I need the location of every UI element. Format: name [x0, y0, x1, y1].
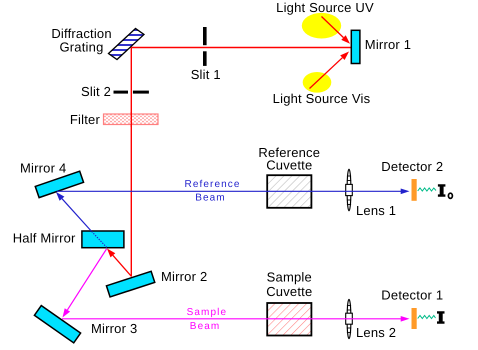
svg-text:Mirror 3: Mirror 3	[91, 321, 137, 336]
svg-text:Half Mirror: Half Mirror	[13, 230, 76, 245]
filter	[104, 114, 159, 125]
lens 1	[346, 169, 353, 211]
mirror 1	[351, 30, 360, 63]
wire: sample beam half mirror to mirror 3	[67, 249, 106, 310]
svg-text:Beam: Beam	[190, 321, 221, 332]
svg-text:Detector 2: Detector 2	[381, 159, 443, 174]
detector 1 body	[412, 308, 417, 329]
svg-text:Cuvette: Cuvette	[266, 284, 312, 299]
detector 2 body	[412, 179, 417, 201]
wire: reference beam diagonal half mirror to mirror 4	[91, 231, 107, 248]
svg-text:Lens 2: Lens 2	[356, 325, 396, 340]
sample cuvette	[267, 303, 311, 336]
mirror 2	[106, 271, 154, 297]
svg-text:Sample: Sample	[187, 307, 228, 318]
svg-text:Mirror 2: Mirror 2	[161, 269, 207, 284]
lens 2	[346, 299, 353, 338]
wire: sample beam horizontal to detector 1	[62, 318, 402, 320]
wire: red beam over filter	[130, 112, 132, 127]
label: I intensity	[437, 311, 445, 324]
svg-text:Light Source Vis: Light Source Vis	[273, 91, 371, 106]
light source UV lamp	[302, 13, 341, 39]
detector 2 signal squiggle	[418, 188, 436, 191]
slit 2	[114, 91, 129, 94]
wire: red beam grating down to mirror 2	[130, 48, 132, 277]
slit 1	[203, 27, 207, 45]
wire: red beam mirror 2 to half mirror	[113, 255, 132, 276]
light source Vis lamp	[303, 72, 332, 93]
svg-text:Reference: Reference	[185, 179, 241, 190]
mirror 3	[34, 306, 80, 343]
svg-text:Sample: Sample	[267, 269, 312, 284]
wire: red beam mirror 1 to diffraction grating	[131, 47, 351, 49]
wire: reference beam horizontal to detector 2	[57, 190, 402, 192]
svg-text:Mirror 1: Mirror 1	[365, 37, 411, 52]
label: I0 intensity	[438, 184, 446, 197]
svg-text:Lens 1: Lens 1	[356, 203, 396, 218]
wire: Vis beam to mirror 1	[310, 58, 343, 89]
half mirror	[82, 231, 124, 248]
mirror 4	[35, 171, 83, 197]
svg-text:Cuvette: Cuvette	[266, 158, 312, 173]
svg-text:Grating: Grating	[59, 39, 103, 54]
reference cuvette	[267, 175, 311, 208]
svg-text:Light Source UV: Light Source UV	[276, 0, 374, 15]
svg-text:Slit 2: Slit 2	[81, 84, 111, 99]
svg-text:Detector 1: Detector 1	[381, 288, 443, 303]
detector 1 signal squiggle	[418, 316, 436, 319]
diffraction grating	[104, 29, 148, 61]
svg-text:Slit 1: Slit 1	[191, 67, 221, 82]
svg-text:Filter: Filter	[70, 112, 101, 127]
svg-text:Beam: Beam	[195, 193, 226, 204]
wire: UV beam to mirror 1	[322, 17, 344, 38]
svg-text:Mirror 4: Mirror 4	[20, 160, 66, 175]
